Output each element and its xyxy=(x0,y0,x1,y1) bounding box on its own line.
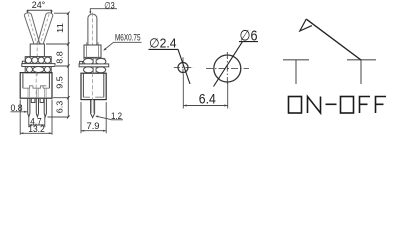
svg-text:∅2.4: ∅2.4 xyxy=(149,36,177,51)
svg-text:1.2: 1.2 xyxy=(111,111,122,121)
svg-text:24°: 24° xyxy=(32,0,46,10)
svg-text:11: 11 xyxy=(55,23,65,33)
svg-text:∅6: ∅6 xyxy=(240,28,258,45)
svg-text:0.8: 0.8 xyxy=(11,103,23,113)
svg-text:9.5: 9.5 xyxy=(55,76,65,89)
svg-text:6.3: 6.3 xyxy=(55,100,65,113)
svg-text:∅3: ∅3 xyxy=(104,0,115,10)
svg-text:7.9: 7.9 xyxy=(87,121,100,131)
svg-text:8.8: 8.8 xyxy=(55,51,65,64)
svg-text:6.4: 6.4 xyxy=(199,92,216,107)
svg-text:13.2: 13.2 xyxy=(28,124,45,134)
svg-text:M6X0.75: M6X0.75 xyxy=(115,33,141,43)
